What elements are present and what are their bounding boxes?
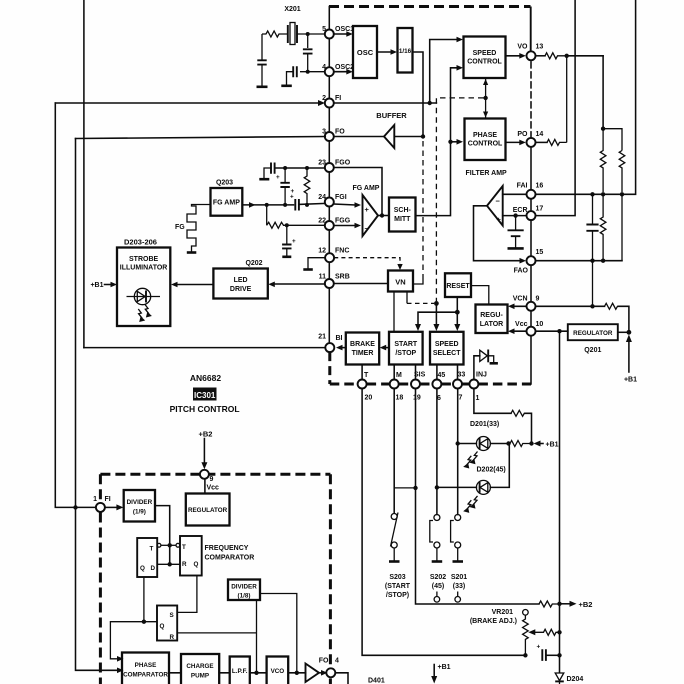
svg-text:ECR: ECR (513, 207, 528, 214)
svg-text:R: R (182, 561, 187, 568)
svg-text:STROBE: STROBE (129, 256, 159, 263)
svg-text:FI: FI (335, 95, 341, 102)
svg-text:RESET: RESET (446, 283, 470, 290)
svg-text:24: 24 (318, 194, 326, 201)
pin 12 FNC (318, 248, 349, 263)
resistor (column A lower) (600, 194, 606, 260)
wire pin 19 SIS down to +B2 row (416, 389, 540, 605)
svg-text:21: 21 (318, 334, 326, 341)
svg-text:T: T (150, 546, 154, 553)
svg-text:15: 15 (536, 249, 544, 256)
svg-text:REGULATOR: REGULATOR (573, 330, 613, 337)
svg-text:REGULATOR: REGULATOR (188, 507, 228, 514)
svg-text:9: 9 (536, 296, 540, 303)
node: VCO line tap (254, 671, 258, 675)
node: D-line junction (168, 562, 172, 566)
wire OSC to 1/16 with arrow (377, 49, 397, 55)
wire BI long line to left (84, 347, 325, 349)
PITCH CONTROL label (170, 404, 240, 414)
switch S203 (391, 513, 399, 561)
D201(33) label (470, 421, 499, 428)
svg-text:1: 1 (93, 496, 97, 503)
svg-text:FAI: FAI (517, 183, 528, 190)
svg-text:Q203: Q203 (216, 180, 233, 187)
svg-text:(1/8): (1/8) (238, 593, 251, 600)
wire column B lower (621, 194, 623, 260)
op-amp filter amp (internal right) (487, 186, 503, 226)
node: FI/FO crossing blob (73, 505, 77, 509)
svg-text:+: + (365, 205, 370, 214)
FGO line caps: series cap with ground (264, 163, 325, 179)
svg-text:FG: FG (175, 224, 185, 231)
svg-text:14: 14 (536, 131, 544, 138)
LED D201 emission arrows (463, 452, 477, 469)
S203 label (385, 574, 411, 599)
dashed wire down to VN block (413, 141, 423, 284)
wire FG AMP output with arrow (242, 202, 293, 208)
svg-text:3: 3 (322, 129, 326, 136)
wire OSC2 pin to OSC box with arrow (334, 69, 353, 75)
IC201 left edge wire segments through pins (328, 7, 330, 344)
resistor (crystal series R) (262, 31, 288, 37)
svg-text:17: 17 (536, 206, 544, 213)
svg-text:OSC1: OSC1 (335, 26, 354, 33)
svg-text:FI: FI (105, 496, 111, 503)
wire latch Q to phase comparator (110, 622, 157, 662)
wire buffer to pin 4 with arrow (319, 670, 328, 676)
wires between bottom blocks (169, 672, 306, 674)
svg-text:SCH-: SCH- (394, 207, 412, 214)
IC201 main IC outline: top edge (bold dashed) (329, 5, 531, 8)
node: brake line junction (557, 653, 561, 657)
pin 17 ECR (513, 206, 544, 221)
svg-text:Q: Q (160, 623, 165, 630)
svg-text:L.P.F.: L.P.F. (232, 668, 248, 675)
node: dashed bus junction (434, 301, 439, 306)
wire pin 9 to regulator (204, 479, 206, 494)
resistor (PO) (547, 139, 567, 145)
svg-text:VO: VO (517, 44, 528, 51)
pin 9 VCN (513, 296, 540, 311)
svg-text:PUMP: PUMP (191, 673, 209, 680)
node: VR bottom junction (523, 653, 527, 657)
svg-text:PITCH CONTROL: PITCH CONTROL (170, 404, 240, 414)
svg-text:R: R (170, 634, 175, 641)
svg-text:33: 33 (458, 372, 466, 379)
resistor (column B upper) (619, 151, 625, 193)
pin 4 FO (IC301) (319, 658, 339, 678)
wire PHASE CONTROL to pin 14 with arrow (506, 140, 526, 146)
node: link/dashed junction (483, 96, 487, 100)
svg-text:4: 4 (322, 64, 326, 71)
svg-text:/STOP: /STOP (395, 350, 416, 357)
REGULATOR block (IC301) (186, 494, 230, 526)
+B1 feed arrow (lamps) (534, 441, 559, 449)
Q201 label (584, 347, 601, 354)
pin 6 (45) (432, 372, 445, 402)
svg-text:INJ: INJ (476, 372, 487, 379)
svg-text:1/16: 1/16 (399, 48, 412, 55)
node: T-line junction (168, 543, 172, 547)
node: VCO output junction (295, 671, 299, 675)
svg-text:FG AMP: FG AMP (213, 200, 240, 207)
node: +B1 lamp node (529, 441, 533, 445)
resistor (+B2 row) (539, 601, 559, 607)
+B1 feed arrow (right) (624, 335, 637, 384)
pin 10 Vcc (515, 321, 543, 336)
pin 1 FI (IC301) (93, 496, 111, 512)
wire divider 1/8 to latch R (177, 600, 256, 673)
node: FAI junctions (590, 192, 624, 196)
switch S201 (451, 515, 461, 561)
svg-text:CONTROL: CONTROL (468, 141, 503, 148)
svg-text:(1/9): (1/9) (133, 509, 146, 516)
svg-text:S: S (170, 612, 174, 619)
ground (left cap) (257, 86, 268, 89)
wire pin 13 VO to resistor (536, 55, 545, 57)
wire regulator to +B1 node (618, 331, 629, 333)
node: SIS junction (413, 486, 417, 490)
wire FI pin to speed control (334, 102, 437, 104)
terminal bar S201 (453, 560, 464, 563)
svg-text:Vcc: Vcc (207, 485, 220, 492)
svg-text:VCN: VCN (513, 296, 528, 303)
pin 1 INJ (469, 372, 487, 403)
capacitor to ground (ECR) (508, 216, 524, 248)
wire pin 4 out to bottom (335, 673, 348, 684)
REGULATOR block Q201 (568, 324, 618, 340)
svg-text:+B1: +B1 (546, 442, 559, 449)
dashed wire FNC to VN with arrow (334, 258, 402, 270)
pin 18 M (390, 372, 404, 402)
pin 5 OSC1 (322, 26, 354, 39)
svg-text:20: 20 (365, 395, 373, 402)
ground (OSC2 cap) (281, 85, 292, 88)
DIVIDER (1/8) block (228, 580, 260, 601)
IC201 bottom edge bus (bold dashed) with pin gaps (330, 383, 531, 386)
SPEED SELECT block (430, 332, 464, 365)
node: FGO junction A (283, 166, 287, 170)
svg-text:+: + (276, 174, 280, 181)
wire VCN resistor to +B1 node (619, 306, 629, 332)
svg-text:22: 22 (318, 218, 326, 225)
node: +B2 junction (557, 602, 561, 606)
vertical link speed-phase with two arrows (483, 78, 488, 119)
wire schmitt output to speed/phase control (416, 65, 464, 216)
wire pin 11 to LED DRIVE with arrow (268, 282, 325, 288)
FG AMP block Q203 (211, 188, 243, 216)
wire pin 10 to regulator with arrow (508, 328, 527, 334)
svg-text:7: 7 (459, 395, 463, 402)
wire BRAKE TIMER to pin 21 with arrow (336, 345, 346, 351)
node: VCN junction (590, 304, 594, 308)
D203-206 label (124, 238, 157, 247)
divider 1/16 block (398, 28, 413, 73)
flip-flop FF2 (176, 536, 202, 576)
svg-text:10: 10 (536, 321, 544, 328)
node: Q line junction (142, 620, 146, 624)
node: FGI junction C (305, 203, 309, 207)
terminal bar S203 (389, 560, 400, 563)
wire pin 10 Vcc right (536, 330, 568, 332)
LED D202 emission arrows (463, 496, 477, 513)
SPEED CONTROL block (464, 37, 506, 79)
wire VN bottom to START/STOP (393, 292, 395, 332)
wire ECR line right and up to top (536, 0, 575, 216)
resistor (VCN) (605, 303, 619, 309)
wire BI vertical to top edge (83, 0, 85, 348)
svg-text:−: − (496, 197, 501, 206)
wire FI long line to pin 2 with arrow (55, 100, 325, 106)
pin 22 FGG (318, 218, 351, 231)
resistor (D201 to +B1) (510, 441, 532, 447)
S201 label (451, 574, 467, 590)
node: schmitt branch (448, 140, 452, 144)
svg-text:OSC2: OSC2 (335, 64, 354, 71)
IC201 outline: bottom-left corner (bold dashed) (328, 352, 331, 384)
svg-text:X201: X201 (284, 6, 300, 13)
svg-text:SPEED: SPEED (473, 50, 497, 57)
wire SPEED CONTROL to pin 13 with arrow (506, 53, 526, 59)
wire pin 14 PO to resistor (536, 141, 547, 143)
pin 24 FGI (318, 194, 347, 207)
svg-text:FAO: FAO (514, 268, 529, 275)
svg-text:BRAKE: BRAKE (350, 341, 375, 348)
svg-text:CONTROL: CONTROL (467, 59, 502, 66)
ground (ECR cap) (508, 247, 524, 250)
flip-flop FF1 (137, 538, 161, 577)
svg-text:BUFFER: BUFFER (376, 111, 407, 120)
svg-text:+: + (537, 644, 541, 651)
FREQUENCY COMPARATOR label (205, 545, 255, 562)
svg-text:SELECT: SELECT (433, 350, 461, 357)
svg-text:/STOP): /STOP) (386, 592, 409, 599)
svg-text:4: 4 (335, 658, 339, 665)
pin 20 T (358, 372, 373, 402)
wire down to FGG row (266, 205, 268, 225)
wire pin 17 ECR to op-amp (503, 215, 527, 217)
IC301 outline right edge (bold dashed) (329, 474, 332, 684)
+B1 feed arrow (bottom center) (431, 664, 450, 684)
D401 label (368, 678, 385, 684)
svg-text:D202(45): D202(45) (477, 467, 506, 474)
RESET block (445, 273, 471, 297)
svg-text:ILLUMINATOR: ILLUMINATOR (120, 265, 168, 272)
svg-text:18: 18 (396, 395, 404, 402)
svg-text:AN6682: AN6682 (190, 373, 221, 383)
svg-text:+B1: +B1 (624, 377, 637, 384)
svg-text:+B2: +B2 (199, 430, 213, 439)
D202(45) label (477, 467, 506, 474)
pin 14 PO (517, 131, 543, 147)
node: buffer input junction (421, 134, 425, 138)
capacitor (OSC1 to OSC2) (303, 34, 313, 72)
capacitor (FAI-FAO) (586, 194, 598, 260)
wire FI up to SPEED CONTROL with arrow (430, 37, 463, 103)
svg-text:Q201: Q201 (584, 347, 601, 354)
svg-text:Q202: Q202 (245, 260, 262, 267)
CHARGE PUMP block (181, 654, 219, 684)
SCH-MITT block (389, 198, 416, 232)
START/STOP block (389, 332, 423, 365)
S202 label (430, 574, 446, 590)
brake line (FO/T row) capacitor (537, 644, 559, 661)
wire pin 1 INJ to resistor (474, 389, 511, 414)
wire FI vertical down to IC301 (55, 103, 96, 507)
svg-text:S202: S202 (430, 574, 446, 581)
svg-text:PHASE: PHASE (135, 662, 157, 669)
svg-text:16: 16 (536, 183, 544, 190)
svg-text:START: START (394, 341, 418, 348)
pin 11 SRB (319, 274, 350, 289)
svg-text:DIVIDER: DIVIDER (127, 499, 153, 506)
resistor (column A upper) (600, 129, 606, 192)
svg-text:VR201: VR201 (492, 609, 514, 616)
AN6682 label (190, 373, 221, 383)
S202 lower terminal (434, 592, 440, 603)
svg-text:−: − (365, 224, 370, 233)
wire pin 9 VCN right (536, 305, 605, 307)
svg-text:LED: LED (234, 277, 248, 284)
pin 13 VO (517, 44, 543, 61)
BRAKE TIMER block (346, 333, 379, 365)
svg-text:S203: S203 (389, 574, 405, 581)
svg-text:D401: D401 (368, 678, 385, 684)
X201 crystal label (284, 6, 300, 13)
wire FO vertical down to phase comparator (76, 139, 124, 674)
ground (FGO cap) (259, 174, 280, 181)
svg-text:T: T (182, 544, 186, 551)
node: crystal/cap junction OSC1 (306, 32, 310, 36)
svg-text:+B1: +B1 (438, 664, 451, 671)
potentiometer VR201 (523, 610, 529, 656)
node: D201 cathode junction (506, 441, 510, 445)
svg-text:(33): (33) (453, 583, 465, 590)
svg-text:S201: S201 (451, 574, 467, 581)
svg-text:(45): (45) (432, 583, 444, 590)
wire pin 20 T down to brake line (362, 389, 524, 656)
node: FAO junctions (590, 259, 605, 263)
svg-text:VCO: VCO (271, 668, 285, 675)
wire FGG input with arrow (334, 223, 361, 229)
wire VO node right and down (567, 55, 603, 57)
svg-text:T: T (364, 372, 369, 379)
svg-text:FG AMP: FG AMP (353, 185, 380, 192)
series capacitor into pin 24 (290, 194, 325, 211)
svg-text:2: 2 (322, 95, 326, 102)
VCO block (267, 657, 289, 684)
svg-text:9: 9 (210, 476, 214, 483)
node: OSC2 junction (306, 70, 310, 74)
node: FG amp output (378, 213, 389, 217)
svg-text:D201(33): D201(33) (470, 421, 499, 428)
dashed wire VN bottom to bus junction (407, 292, 434, 304)
svg-text:FILTER AMP: FILTER AMP (466, 170, 508, 177)
node: Vcc junction (557, 329, 561, 333)
svg-text:23: 23 (318, 160, 326, 167)
svg-text:OSC: OSC (357, 48, 374, 57)
svg-text:PHASE: PHASE (473, 132, 497, 139)
svg-text:DIVIDER: DIVIDER (231, 584, 257, 591)
node: FGG junction (285, 223, 289, 227)
svg-text:Vcc: Vcc (515, 321, 528, 328)
resistor (INJ) (511, 410, 525, 416)
pin 2 FI (322, 95, 341, 108)
node: FGO junction B (305, 166, 309, 170)
svg-text:D203-206: D203-206 (124, 238, 157, 247)
node: reset branch (455, 310, 460, 315)
svg-text:COMPARATOR: COMPARATOR (123, 672, 168, 679)
LED D202 (437, 444, 509, 495)
wire resistor to +B1 node (525, 413, 532, 443)
wire pin 6 down to D202/S202 (436, 389, 438, 515)
latch S/Q/R block (157, 606, 177, 642)
svg-text:+: + (497, 215, 502, 224)
wire FO long line to pin 3 (76, 137, 326, 139)
crystal X201 symbol (288, 23, 325, 45)
svg-text:+: + (292, 238, 296, 245)
wire pin 16 FAI to op-amp (503, 193, 527, 195)
pin 19 SIS (411, 372, 426, 402)
S201 lower terminal (455, 592, 461, 603)
svg-text:Q: Q (140, 565, 145, 572)
+B2 feed arrow (pitch control) (199, 430, 213, 470)
buffer amp triangle (FO) (334, 125, 421, 148)
FG AMP label (op-amp) (353, 185, 380, 192)
svg-text:+B2: +B2 (579, 600, 593, 609)
wire link M row to SIS line (394, 487, 415, 489)
resistor (VO) (545, 53, 566, 59)
resistor (FGO-FGI vertical) (304, 168, 310, 205)
wire FF2 Q output to latch S (177, 576, 197, 613)
+B2 arrow label (560, 600, 593, 609)
svg-text:SPEED: SPEED (435, 341, 459, 348)
diode D204 (555, 673, 583, 684)
node: wiper junction (557, 630, 561, 634)
wire START/STOP to BRAKE TIMER with arrow (380, 345, 389, 351)
svg-text:PO: PO (517, 131, 528, 138)
svg-text:11: 11 (319, 274, 327, 281)
REGU-LATOR block (internal) (476, 305, 508, 334)
wire T clock line (161, 544, 176, 546)
IC301 inverse label (193, 388, 217, 401)
pin 15 FAO (514, 249, 544, 275)
svg-text:(START: (START (385, 583, 411, 590)
OSC block (353, 26, 377, 78)
svg-text:Q: Q (194, 561, 199, 568)
svg-text:LATOR: LATOR (480, 321, 503, 328)
svg-text:TIMER: TIMER (352, 350, 374, 357)
wire op-amp output to pin 15 FAO with arrow (474, 206, 527, 264)
FG coil pickup (187, 205, 211, 253)
IC201 right edge segments (530, 60, 532, 384)
dashed wire from link to internal bus (436, 98, 483, 301)
FG label (175, 224, 185, 231)
node: column A junction (601, 127, 605, 131)
wire pin 1 to divider with arrow (105, 504, 124, 510)
capacitor (FGG to ground) (282, 225, 296, 256)
wire FGI input with arrow (334, 202, 361, 208)
pin 3 FO (322, 129, 345, 142)
pin 23 FGO (318, 160, 351, 173)
wire RESET to REGU-LATOR (471, 286, 489, 305)
wire divider output down (155, 506, 170, 565)
wire FGO feedback to FG amp output (334, 168, 382, 216)
node: D201 junction (456, 441, 460, 445)
BUFFER label (376, 111, 407, 120)
wire Vcc long vertical down (559, 331, 561, 672)
wire FAI line right (536, 0, 636, 194)
